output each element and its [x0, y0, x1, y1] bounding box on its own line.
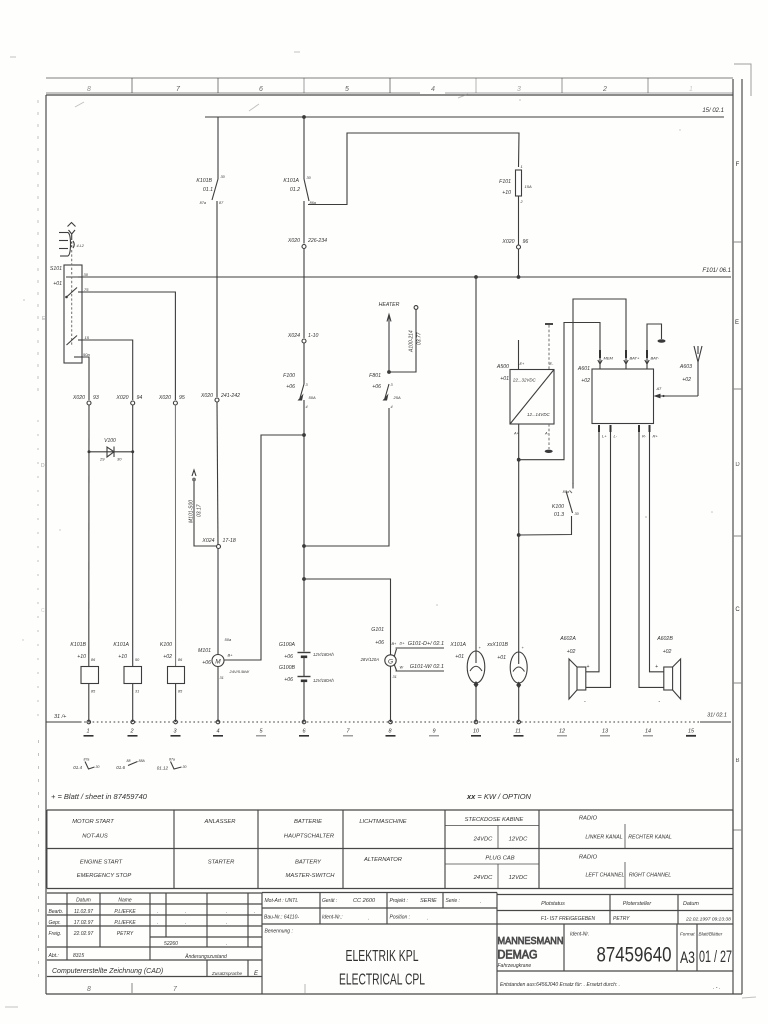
- wire battery column to M101 B+: [225, 435, 305, 660]
- svg-text:87459640: 87459640: [597, 944, 672, 967]
- svg-text:12: 12: [559, 729, 565, 735]
- signal stub A100 03.77: [389, 306, 423, 372]
- ground tick 9: [429, 729, 439, 736]
- ground tick 5: [256, 729, 266, 736]
- ground tick 7: [343, 729, 353, 736]
- wire X020:93 down through V100 node to K101B coil: [88, 405, 90, 667]
- starter motor M101: [198, 637, 250, 722]
- wire X020:96 to bus: [518, 249, 520, 277]
- svg-text:G101: G101: [371, 627, 384, 633]
- svg-text:DEMAG: DEMAG: [498, 950, 538, 962]
- svg-text:01.4: 01.4: [73, 765, 82, 770]
- svg-text:Name: Name: [118, 898, 132, 904]
- ground node 3: [171, 720, 181, 736]
- svg-text:AT: AT: [656, 386, 662, 391]
- svg-text:A+: A+: [513, 432, 520, 436]
- alternator G101: [360, 627, 397, 722]
- svg-text:G100B: G100B: [279, 665, 296, 671]
- radio pin AT antenna input: [654, 386, 699, 398]
- radio pin L-: [586, 425, 618, 687]
- connector X020:95: [158, 395, 185, 405]
- connector X020:241-242: [200, 393, 240, 402]
- svg-text:+01: +01: [53, 281, 62, 287]
- svg-text:F101: F101: [499, 179, 511, 185]
- connector X020:226-234: [287, 238, 327, 249]
- svg-text:Änderungszustand: Änderungszustand: [184, 953, 227, 960]
- svg-text:Position :: Position :: [390, 915, 411, 921]
- svg-text:A603: A603: [679, 364, 692, 370]
- svg-text:Zusatzsprache: Zusatzsprache: [211, 971, 243, 976]
- svg-text:01.1: 01.1: [203, 187, 213, 193]
- svg-text:Projekt :: Projekt :: [390, 898, 409, 904]
- heater output arrow: [379, 302, 400, 325]
- svg-text:30: 30: [96, 765, 100, 769]
- svg-text:+02: +02: [163, 654, 172, 660]
- svg-text:Format: Format: [680, 932, 695, 937]
- connector X024:17-18: [201, 538, 236, 549]
- svg-text:.: .: [157, 909, 158, 915]
- svg-text:4: 4: [216, 729, 219, 735]
- svg-text:17.02.97: 17.02.97: [74, 920, 94, 926]
- svg-text:P.LIEFKE: P.LIEFKE: [114, 909, 136, 915]
- left gutter faint zone letters: [41, 316, 46, 614]
- svg-text:D+: D+: [400, 642, 406, 646]
- svg-text:C: C: [735, 607, 740, 613]
- radio pin R+: [650, 425, 664, 672]
- svg-text:241-242: 241-242: [220, 393, 240, 399]
- wire MEM feed to radio: [519, 323, 600, 460]
- svg-text:+06: +06: [375, 640, 384, 646]
- contact mirror 01.12: [157, 758, 187, 771]
- svg-text:RADIO: RADIO: [579, 855, 598, 861]
- wire X024:1-10 to F100: [303, 343, 305, 384]
- svg-text:G101-D+/ 02.1: G101-D+/ 02.1: [408, 641, 444, 647]
- top zone ruler strip: [46, 78, 733, 93]
- svg-text:12VDC: 12VDC: [509, 875, 529, 881]
- wire K101A contact jog up to F101: [308, 133, 519, 205]
- svg-text:ANLASSER: ANLASSER: [204, 819, 237, 825]
- svg-text:+06: +06: [284, 677, 293, 683]
- wire K100 contact to radio BAT+: [519, 516, 572, 535]
- svg-text:14: 14: [645, 729, 651, 735]
- contact mirror 01.4: [73, 758, 99, 771]
- svg-text:CC 2600: CC 2600: [353, 898, 376, 904]
- svg-text:2: 2: [602, 86, 607, 93]
- main bus F101/06.1 from S101 pin 30: [66, 268, 731, 277]
- svg-text:+06: +06: [202, 660, 211, 666]
- wire F801 to heater arrow: [388, 325, 390, 372]
- battery G100B: [279, 665, 335, 722]
- svg-text:24VDC: 24VDC: [473, 837, 494, 843]
- connector X020:94: [115, 395, 142, 405]
- chassis blob on A500 A-: [545, 424, 553, 453]
- svg-text:95: 95: [179, 395, 185, 401]
- svg-text:Entstanden aus:6456J040 Ersat: Entstanden aus:6456J040 Ersatz für: . Er…: [500, 982, 620, 988]
- svg-text:. - .: . - .: [713, 985, 720, 991]
- svg-text:226-234: 226-234: [307, 238, 327, 244]
- ground node 11: [514, 720, 524, 736]
- svg-text:Gepr.: Gepr.: [49, 920, 61, 926]
- svg-text:Freig.: Freig.: [49, 931, 62, 937]
- frame corner trim mark: [734, 64, 751, 96]
- function table: [47, 810, 733, 889]
- wire X020:94 down through V100 node to K101A coil: [132, 405, 134, 667]
- wire X024:17-18 to M101 pin 50a: [217, 549, 219, 655]
- svg-text:W: W: [400, 666, 404, 670]
- svg-text:K101A: K101A: [283, 178, 299, 184]
- relay contact K100 01.3: [552, 483, 580, 518]
- svg-text:24V/5.5kW: 24V/5.5kW: [229, 669, 251, 674]
- antenna A603: [679, 346, 702, 396]
- svg-text:X024: X024: [287, 333, 300, 339]
- svg-text:S101: S101: [50, 266, 62, 272]
- ground tick 15: [686, 729, 696, 736]
- fuse F101: [499, 165, 532, 204]
- svg-text:8315: 8315: [73, 953, 84, 959]
- right gutter zone ticks: [733, 242, 742, 830]
- svg-text:BATTERIE: BATTERIE: [294, 819, 322, 825]
- svg-text:C: C: [41, 608, 45, 614]
- ground bus 31: [46, 713, 731, 723]
- svg-text:A3: A3: [680, 948, 695, 967]
- svg-text:X024: X024: [201, 538, 214, 544]
- svg-text:Benennung :: Benennung :: [265, 929, 294, 935]
- svg-text:Gerät :: Gerät :: [322, 898, 338, 904]
- svg-text:31: 31: [135, 690, 139, 694]
- wire A500 output to X101B socket: [518, 424, 520, 664]
- svg-text:+02: +02: [581, 378, 590, 384]
- svg-text:X020: X020: [200, 393, 213, 399]
- node junction G101 feed: [302, 577, 306, 581]
- svg-text:K101B: K101B: [196, 178, 212, 184]
- svg-text:Ident-Nr.:: Ident-Nr.:: [322, 915, 343, 921]
- wire K101B contact to X020:241-242: [216, 201, 218, 397]
- svg-text:93: 93: [93, 395, 99, 401]
- svg-text:Serie :: Serie :: [446, 898, 461, 904]
- svg-text:12VDC: 12VDC: [509, 837, 529, 843]
- svg-text:+06: +06: [284, 654, 293, 660]
- svg-text:LICHTMASCHINE: LICHTMASCHINE: [359, 819, 406, 825]
- ground node 8: [386, 720, 396, 736]
- svg-text:03.77: 03.77: [417, 332, 423, 345]
- svg-text:K101A: K101A: [113, 642, 129, 648]
- svg-text:03.17: 03.17: [197, 504, 203, 517]
- svg-text:+: +: [655, 664, 658, 670]
- svg-text:X020: X020: [501, 239, 514, 245]
- svg-text:K101B: K101B: [70, 642, 86, 648]
- breaker fuse F100: [283, 373, 316, 409]
- svg-text:22.02.97: 22.02.97: [73, 931, 94, 937]
- svg-text:Plotersteller: Plotersteller: [623, 901, 652, 907]
- signal G101-W to 02.1: [394, 664, 444, 671]
- svg-text:.: .: [226, 941, 227, 947]
- svg-text:F801: F801: [369, 373, 381, 379]
- wire bus to X101A socket: [475, 277, 477, 663]
- svg-text:ELEKTRIK KPL: ELEKTRIK KPL: [346, 948, 419, 965]
- ground node 10: [471, 720, 481, 736]
- svg-text:+02: +02: [682, 377, 691, 383]
- svg-text:50A: 50A: [309, 395, 316, 400]
- svg-text:R-: R-: [642, 434, 647, 439]
- svg-text:15: 15: [85, 335, 90, 340]
- svg-text:MASTER-SWITCH: MASTER-SWITCH: [286, 873, 336, 879]
- svg-text:12V/180Ah: 12V/180Ah: [313, 678, 334, 683]
- wire battery column to G101 B+: [304, 579, 391, 655]
- svg-text:Mot-Art : UNTL: Mot-Art : UNTL: [265, 898, 299, 904]
- relay coil K101B: [70, 642, 98, 722]
- svg-text:+: +: [587, 664, 590, 670]
- breaker fuse F801: [369, 373, 401, 409]
- node junction on rail for K101A: [302, 115, 306, 119]
- svg-text:Plotstatus: Plotstatus: [541, 901, 565, 907]
- radio pin MEM: [598, 350, 614, 369]
- svg-text:.: .: [427, 916, 428, 922]
- svg-text:52260: 52260: [164, 941, 178, 947]
- svg-text:EMERGENCY STOP: EMERGENCY STOP: [77, 873, 132, 879]
- ground node 2: [128, 720, 138, 736]
- svg-text:V100: V100: [104, 438, 116, 444]
- svg-text:RADIO: RADIO: [579, 816, 598, 822]
- svg-text:15: 15: [688, 729, 695, 735]
- svg-text:15A: 15A: [525, 184, 532, 189]
- svg-text:G101-W/ 02.1: G101-W/ 02.1: [410, 664, 444, 670]
- svg-text:MOTOR START: MOTOR START: [72, 819, 114, 825]
- node junction F801 / A100 branch: [387, 370, 391, 374]
- svg-text:G: G: [388, 659, 393, 666]
- wire S101 pin15 to X020:94: [82, 340, 133, 400]
- svg-text:31 /+: 31 /+: [54, 714, 67, 720]
- svg-text:B+: B+: [228, 653, 234, 658]
- wire X020:95 to K100 coil: [174, 405, 176, 667]
- svg-text:8: 8: [87, 86, 91, 93]
- battery G100A: [279, 642, 335, 676]
- radio pin BAT- with chassis: [645, 324, 666, 369]
- wire K101A contact down to X020:226-234: [303, 201, 305, 244]
- svg-text:BAT-: BAT-: [651, 356, 660, 361]
- contact mirror 01.6: [116, 759, 145, 770]
- svg-text:6: 6: [259, 86, 263, 93]
- title block right grid: [497, 895, 733, 972]
- svg-text:24VDC: 24VDC: [473, 875, 494, 881]
- connector X024:1-10: [287, 333, 319, 343]
- node junction bus / F101-A500 column: [517, 275, 521, 279]
- svg-text:11: 11: [515, 729, 521, 735]
- svg-text:+10: +10: [502, 190, 511, 196]
- svg-text:Datum: Datum: [76, 898, 91, 904]
- svg-text:D: D: [735, 462, 740, 468]
- power rail 15: [205, 108, 724, 117]
- svg-text:96: 96: [523, 239, 529, 245]
- svg-text:3: 3: [517, 86, 521, 93]
- wire X020:241-242 to X024:17-18: [217, 402, 218, 545]
- svg-text:SERIE: SERIE: [420, 898, 437, 904]
- svg-text:30: 30: [84, 272, 89, 277]
- svg-text:01 / 27: 01 / 27: [699, 947, 732, 966]
- wire S101 pin75 to X020:95: [82, 292, 175, 400]
- ground tick 13: [600, 729, 610, 736]
- ground tick 12: [557, 729, 567, 736]
- relay coil K100: [160, 642, 185, 722]
- svg-text:X020: X020: [115, 395, 128, 401]
- radio pin R-: [639, 425, 664, 687]
- svg-text:30: 30: [183, 765, 187, 769]
- svg-text:.: .: [185, 909, 186, 915]
- svg-text:28V/120A: 28V/120A: [360, 657, 380, 662]
- svg-text:Computererstellte Zeichnung (C: Computererstellte Zeichnung (CAD): [52, 968, 163, 975]
- svg-text:4: 4: [431, 86, 435, 93]
- manufacturer logo MANNESMANN DEMAG: [498, 936, 564, 969]
- svg-text:RECHTER KANAL: RECHTER KANAL: [628, 835, 672, 841]
- svg-text:M101: M101: [198, 648, 211, 654]
- svg-text:01.6: 01.6: [116, 765, 125, 770]
- svg-text:Blatt/Blätter: Blatt/Blätter: [699, 932, 723, 937]
- svg-text:HAUPTSCHALTER: HAUPTSCHALTER: [284, 834, 335, 840]
- svg-text:31/ 02.1: 31/ 02.1: [707, 713, 727, 719]
- svg-text:A602B: A602B: [656, 636, 673, 642]
- svg-text:P.LIEFKE: P.LIEFKE: [114, 920, 136, 926]
- svg-text:BATTERY: BATTERY: [295, 860, 322, 866]
- relay contact K101A 01.2: [283, 117, 315, 205]
- svg-text:4: 4: [306, 405, 308, 409]
- svg-text:A100-214: A100-214: [409, 330, 415, 353]
- svg-text:BAT+: BAT+: [630, 356, 640, 361]
- node junction A+ / K100 contact feed: [517, 533, 521, 537]
- svg-text:G100A: G100A: [279, 642, 296, 648]
- plot status texts: [541, 901, 731, 923]
- svg-text:4: 4: [391, 405, 393, 409]
- svg-text:F: F: [736, 162, 740, 168]
- svg-text:Fahrzeugkrane: Fahrzeugkrane: [498, 963, 532, 969]
- converter A500: [496, 340, 554, 436]
- svg-text:4.L2: 4.L2: [77, 244, 85, 248]
- connector X020:96: [501, 239, 528, 249]
- svg-text:31: 31: [393, 675, 397, 679]
- svg-text:17-18: 17-18: [223, 538, 236, 544]
- svg-text:50a: 50a: [83, 352, 90, 357]
- title block middle grid: [262, 893, 497, 995]
- svg-text:01.3: 01.3: [554, 512, 564, 518]
- svg-text:MEM: MEM: [604, 356, 614, 361]
- svg-text:31: 31: [220, 676, 224, 680]
- svg-text:B: B: [735, 758, 739, 764]
- ignition switch S101: [50, 250, 91, 363]
- svg-text:+06: +06: [372, 384, 381, 390]
- svg-text:.: .: [226, 909, 227, 915]
- svg-text:NOT-AUS: NOT-AUS: [82, 834, 108, 840]
- svg-text:22...32VDC: 22...32VDC: [512, 378, 537, 383]
- speaker A602A: [559, 636, 589, 705]
- svg-text:L+: L+: [602, 434, 607, 439]
- svg-text:12...14VDC: 12...14VDC: [527, 412, 551, 417]
- svg-text:+ = Blatt / sheet in 87459740: + = Blatt / sheet in 87459740: [51, 792, 148, 801]
- svg-text:PETRY: PETRY: [613, 916, 630, 922]
- wire K100 contact up to BAT+ rail: [573, 299, 626, 484]
- svg-text:xx = KW / OPTION: xx = KW / OPTION: [466, 792, 532, 801]
- signal stub M101-S00 03.17: [189, 470, 217, 546]
- wire F101 to X020:96: [518, 196, 520, 245]
- svg-text:1: 1: [689, 86, 693, 93]
- svg-text:+01: +01: [497, 655, 506, 661]
- svg-text:+01: +01: [500, 376, 509, 382]
- node junction bus / X101A feed: [474, 275, 478, 279]
- svg-text:87a: 87a: [84, 758, 90, 762]
- svg-text:E+: E+: [520, 362, 526, 366]
- svg-text:29: 29: [99, 457, 105, 462]
- node junction heater feed: [302, 544, 306, 548]
- svg-text:15/ 02.1: 15/ 02.1: [702, 108, 724, 114]
- svg-text:.: .: [368, 916, 369, 922]
- svg-text:1-10: 1-10: [308, 333, 318, 339]
- svg-text:D: D: [41, 463, 45, 469]
- svg-text:+02: +02: [663, 649, 672, 655]
- wire rail to K101B contact: [217, 117, 219, 176]
- svg-text:12V/180Ah: 12V/180Ah: [313, 652, 334, 657]
- svg-text:+06: +06: [286, 384, 295, 390]
- ground node 1: [84, 720, 94, 736]
- svg-text:xxX101B: xxX101B: [486, 642, 508, 648]
- svg-text:88: 88: [127, 759, 131, 763]
- svg-text:B+: B+: [392, 642, 398, 646]
- radio pin L+: [586, 425, 607, 672]
- svg-text:75: 75: [84, 287, 89, 292]
- svg-text:01.12: 01.12: [157, 766, 169, 771]
- svg-text:LEFT CHANNEL: LEFT CHANNEL: [586, 873, 625, 879]
- svg-text:LINKER KANAL: LINKER KANAL: [585, 835, 622, 841]
- svg-text:STARTER: STARTER: [208, 860, 235, 866]
- svg-text:A601: A601: [577, 366, 590, 372]
- svg-text:+01: +01: [455, 654, 464, 660]
- svg-text:E: E: [735, 320, 739, 326]
- svg-text:PLUG CAB: PLUG CAB: [485, 856, 514, 862]
- svg-text:.: .: [254, 909, 255, 915]
- svg-text:10: 10: [473, 729, 480, 735]
- node junction starter feed: [302, 433, 306, 437]
- svg-text:Bearb.: Bearb.: [49, 909, 64, 915]
- svg-text:MANNESMANN: MANNESMANN: [498, 936, 564, 947]
- svg-text:11.02.97: 11.02.97: [74, 909, 93, 915]
- svg-text:X020: X020: [72, 395, 85, 401]
- ground node 6: [299, 720, 309, 736]
- svg-text:A602A: A602A: [559, 636, 576, 642]
- svg-text:X101A: X101A: [449, 642, 466, 648]
- svg-text:2: 2: [129, 729, 133, 735]
- ground tick 14: [643, 729, 653, 736]
- svg-text:Bau-Nr.: 64110-: Bau-Nr.: 64110-: [264, 915, 299, 921]
- svg-text:Abt.:: Abt.:: [48, 953, 60, 959]
- svg-text:50a: 50a: [225, 637, 232, 642]
- svg-text:A500: A500: [496, 364, 509, 370]
- svg-text:1: 1: [86, 729, 89, 735]
- svg-text:K100: K100: [552, 504, 564, 510]
- svg-text:22.02.1997 09:23:38: 22.02.1997 09:23:38: [685, 917, 731, 923]
- radio pin BAT+: [624, 350, 640, 369]
- svg-text:M101-S00: M101-S00: [189, 500, 195, 523]
- svg-text:+10: +10: [118, 654, 127, 660]
- svg-text:88A: 88A: [139, 759, 146, 763]
- relay coil K101A: [113, 642, 141, 722]
- title block left texts: [48, 898, 256, 961]
- connector X020:93: [72, 395, 99, 405]
- svg-text:13: 13: [602, 729, 609, 735]
- signal G101-D+ to 02.1: [394, 641, 444, 656]
- relay contact K101B 01.1: [196, 175, 225, 205]
- svg-text:X020: X020: [287, 238, 300, 244]
- speaker A602B: [655, 636, 681, 705]
- svg-text:RIGHT CHANNEL: RIGHT CHANNEL: [629, 873, 671, 879]
- title block left grid: [47, 893, 262, 994]
- socket X101B option: [486, 642, 527, 722]
- node junction A+ / MEM feed: [517, 458, 521, 462]
